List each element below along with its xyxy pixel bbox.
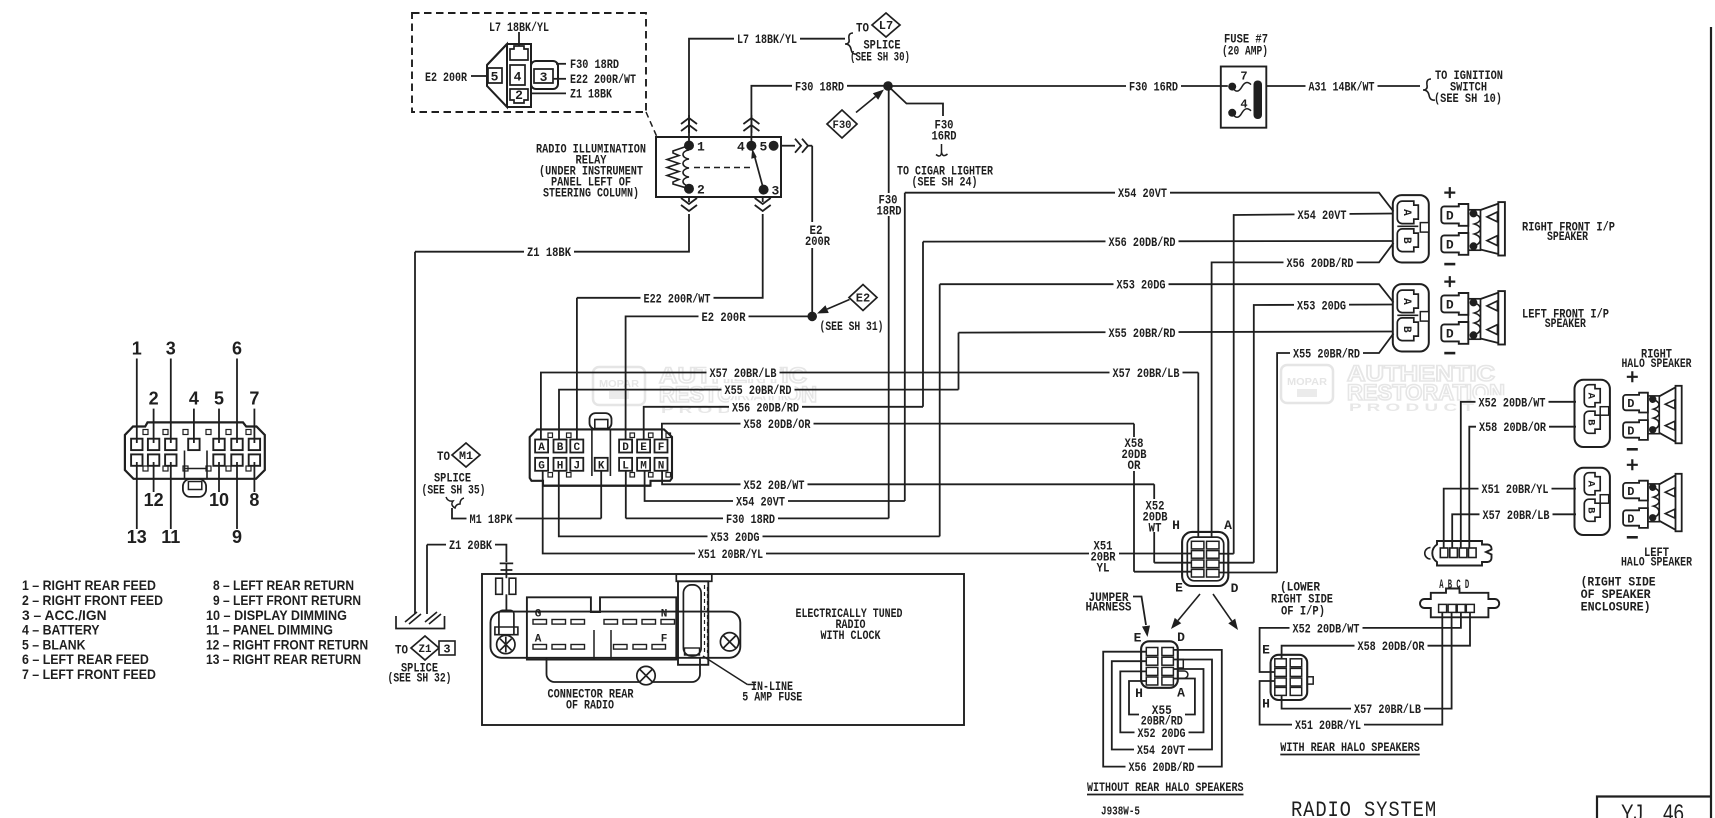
svg-text:A: A (1585, 393, 1597, 400)
wire X53 20DG bus to left-front speaker A (940, 284, 1394, 302)
svg-text:10: 10 (209, 490, 229, 510)
svg-text:X57 20BR/LB: X57 20BR/LB (1113, 366, 1180, 381)
label M1 18PK (467, 512, 516, 525)
svg-text:X56 20DB/RD: X56 20DB/RD (1287, 256, 1354, 271)
svg-text:TO: TO (395, 643, 408, 658)
C1 pin E (637, 440, 650, 453)
svg-text:SPEAKER: SPEAKER (1547, 229, 1588, 244)
svg-text:Z1 18BK: Z1 18BK (527, 245, 571, 260)
svg-text:G: G (538, 460, 545, 472)
wire X52 20DB/WT (C5 to C6 pin C) (1260, 613, 1461, 672)
svg-text:B: B (557, 442, 564, 454)
fuse F7 20A (1221, 67, 1267, 128)
svg-text:E: E (1134, 631, 1142, 646)
svg-text:A31 14BK/WT: A31 14BK/WT (1309, 80, 1375, 95)
label X51 20BR/YL (lower) (695, 547, 766, 560)
connector C9 pin legend (22, 577, 368, 682)
callout 3 to pin (170, 359, 172, 444)
svg-text:Z1 20BK: Z1 20BK (449, 538, 492, 553)
svg-text:X54 20VT: X54 20VT (1118, 186, 1167, 201)
svg-text:(SEE SH 24): (SEE SH 24) (912, 175, 978, 190)
wire F30 18RD (pin4 up to junction) (751, 86, 888, 133)
svg-text:K: K (598, 460, 605, 472)
C1 pin B (554, 440, 567, 453)
svg-text:WITH REAR HALO SPEAKERS: WITH REAR HALO SPEAKERS (1280, 740, 1420, 755)
label X57 20BR/LB (right) (1110, 366, 1183, 379)
svg-text:X57 20BR/LB: X57 20BR/LB (710, 366, 777, 381)
brace to cigar lighter (936, 144, 948, 156)
radio pin field (527, 597, 676, 659)
label X52 20DB/WT (halo) (1476, 395, 1549, 408)
svg-text:3: 3 (772, 184, 780, 199)
svg-text:YJ: YJ (1621, 800, 1643, 818)
wire X51 20BR/YL (C7 to left halo A) (1444, 489, 1576, 548)
callout 10 to pin (218, 462, 220, 492)
svg-text:TO: TO (856, 21, 869, 36)
svg-text:12 – RIGHT FRONT RETURN: 12 – RIGHT FRONT RETURN (206, 636, 368, 652)
svg-text:12: 12 (144, 490, 164, 510)
svg-text:YL: YL (1097, 560, 1110, 575)
wire X58 20DB/OR (C5 to C6 pin D) (1282, 613, 1470, 658)
screw bottom (637, 666, 655, 684)
relay pin 1 terminal (684, 141, 694, 151)
radio connector housing (491, 612, 741, 658)
svg-text:(SEE SH 35): (SEE SH 35) (422, 483, 486, 498)
svg-text:L7 18BK/YL: L7 18BK/YL (737, 32, 797, 47)
svg-text:5: 5 (491, 70, 499, 85)
svg-text:A B C D: A B C D (1439, 577, 1469, 592)
label X58 20DB/OR (left) (741, 417, 814, 430)
wire X58 20DB/OR (pin F right and down to C2) (662, 424, 1134, 441)
wire jumper X56 20DB/RD loop (1103, 650, 1222, 767)
wire X57 20BR/LB (C5 to C6 pin B) (1282, 613, 1452, 709)
svg-text:X52 20DB/WT: X52 20DB/WT (1293, 621, 1360, 636)
brace to L7 splice (845, 33, 857, 54)
label X51 20BR YL (stacked) (1089, 539, 1119, 571)
svg-text:X56 20DB/RD: X56 20DB/RD (1129, 760, 1195, 775)
C1 pin N (655, 458, 668, 471)
svg-text:X54 20VT: X54 20VT (1137, 743, 1185, 758)
label X54 20VT (lower) (733, 495, 788, 508)
callout 4 to pin (193, 409, 195, 443)
svg-text:D: D (1446, 209, 1454, 224)
svg-text:7: 7 (1240, 70, 1247, 84)
svg-text:H: H (1262, 696, 1270, 711)
connector C7 speaker enclosure 4-way (1432, 541, 1491, 566)
svg-text:E: E (1262, 643, 1270, 658)
wire X52 20DB/WT (C7 to right halo A) (1461, 402, 1576, 548)
svg-text:4: 4 (189, 389, 199, 409)
wire X58 20DB/OR (C7 to right halo B) (1469, 427, 1576, 548)
svg-text:X51 20BR/YL: X51 20BR/YL (1482, 482, 1549, 497)
label IN-LINE 5 AMP FUSE with leader (703, 656, 748, 685)
svg-text:4: 4 (737, 140, 745, 155)
break chevron below pin2 (681, 205, 697, 211)
label E22 200R/WT (641, 291, 714, 304)
svg-text:E22 200R/WT: E22 200R/WT (644, 291, 711, 306)
svg-text:20BR/RD: 20BR/RD (1141, 714, 1183, 729)
svg-text:C: C (573, 442, 580, 454)
label X53 20DG (bus) (1114, 278, 1169, 291)
svg-text:L7: L7 (879, 19, 893, 33)
svg-text:X55 20BR/RD: X55 20BR/RD (1109, 326, 1176, 341)
wire X55 20BR/RD bus to left-front speaker B (959, 332, 1394, 333)
splice symbol F30 with leader arrow (827, 110, 857, 138)
svg-text:E: E (1175, 581, 1183, 596)
label X58 20DB OR (stacked) (1120, 437, 1148, 471)
svg-text:H: H (557, 460, 564, 472)
svg-text:F30 18RD: F30 18RD (726, 512, 775, 527)
wire X54 20VT bus to right-front speaker A (905, 193, 1394, 212)
sheet right border line (1710, 27, 1712, 818)
C1 pin F (655, 440, 668, 453)
wire M1 18PK (to pin K) (452, 508, 601, 519)
svg-text:18RD: 18RD (877, 204, 902, 219)
C1 pin D (619, 440, 632, 453)
label Z1 18BK (524, 245, 574, 258)
svg-text:7 – LEFT FRONT FEED: 7 – LEFT FRONT FEED (22, 666, 156, 682)
svg-text:X51 20BR/YL: X51 20BR/YL (1295, 718, 1361, 733)
svg-text:D: D (1627, 397, 1634, 411)
C3 wire stub to L7 label (518, 32, 520, 46)
label X54 20VT (jumper) (1134, 743, 1188, 756)
svg-text:D: D (1177, 630, 1185, 645)
svg-text:X58 20DB/OR: X58 20DB/OR (1358, 639, 1425, 654)
svg-text:F: F (661, 634, 668, 646)
svg-text:A: A (1400, 298, 1412, 305)
svg-text:L: L (622, 460, 629, 472)
label L7 18BK/YL (734, 32, 800, 45)
svg-text:E22 200R/WT: E22 200R/WT (570, 72, 636, 87)
break chevron on L7 wire (681, 118, 697, 124)
svg-text:X55 20BR/RD: X55 20BR/RD (725, 383, 792, 398)
C1 pin M (637, 458, 650, 471)
svg-text:HALO SPEAKER: HALO SPEAKER (1622, 356, 1692, 371)
svg-text:E2 200R: E2 200R (702, 310, 746, 325)
svg-text:X55 20BR/RD: X55 20BR/RD (1293, 347, 1360, 362)
svg-text:X56 20DB/RD: X56 20DB/RD (732, 400, 799, 415)
brace below M1 splice (446, 497, 464, 508)
relay pin 5 terminal (769, 141, 779, 151)
grommet into Z1 splice (396, 616, 445, 629)
speaker LS3 right halo (1575, 371, 1682, 449)
svg-text:HARNESS: HARNESS (1086, 600, 1132, 615)
screw right (720, 633, 738, 651)
radio pin rows (533, 620, 547, 625)
svg-text:2: 2 (515, 88, 523, 103)
relay pin 3 terminal (759, 185, 769, 195)
wire L7 18BK/YL (pin1 up and right) (689, 39, 845, 133)
connector C3 relay-socket face view (487, 44, 558, 107)
connector C2 8-way (lower right side of I/P) (1182, 532, 1228, 586)
svg-text:OR: OR (1128, 458, 1141, 473)
svg-text:RADIO SYSTEM: RADIO SYSTEM (1291, 798, 1437, 818)
callout 8 to pin (253, 462, 255, 492)
break chevron on pin5 wire (795, 139, 801, 153)
wire X56 20DB/RD (pin E up to bus) (644, 407, 923, 441)
svg-text:X57 20BR/LB: X57 20BR/LB (1483, 508, 1550, 523)
callout 6 to pin (236, 359, 238, 444)
break chevron below pin3 (755, 205, 771, 211)
label X51 20BR/YL (halo harness) (1292, 718, 1364, 731)
illumination bulb socket (499, 610, 514, 634)
label X58 20DB/OR (halo) (1476, 420, 1549, 433)
wire A31 14BK/WT (fuse to ignition) (1266, 85, 1420, 87)
connector C9 radio harness 13-way face view (125, 422, 265, 478)
wire jumper X52 20DG loop (1120, 669, 1203, 732)
svg-text:A: A (1400, 209, 1412, 216)
wire X56 20DB/RD inner (C2 to speaker B) (1212, 243, 1394, 538)
svg-text:(SEE SH 31): (SEE SH 31) (820, 319, 884, 334)
svg-text:D: D (1627, 485, 1634, 499)
wire X55 20BR/RD (pin B up to bus) (559, 390, 959, 441)
svg-text:4: 4 (514, 70, 522, 85)
label X57 20BR/LB (halo harness) (1351, 702, 1424, 715)
wire jumper X54 20VT loop (1112, 660, 1212, 750)
wire X55 20BR/RD inner (C2 to speaker B) (1220, 572, 1278, 574)
svg-text:G: G (535, 609, 542, 621)
svg-text:A: A (535, 634, 542, 646)
relay K1 RADIO ILLUMINATION RELAY box (656, 137, 781, 197)
wire X53 20DG (pin H to bus riser) (559, 471, 940, 536)
label X52 20DB/WT (halo harness) (1290, 621, 1363, 634)
svg-text:ENCLOSURE): ENCLOSURE) (1581, 600, 1651, 615)
svg-text:3: 3 (166, 339, 176, 359)
svg-text:E: E (640, 442, 647, 454)
svg-text:2: 2 (697, 183, 705, 198)
svg-text:D: D (1446, 298, 1454, 313)
svg-text:4 – BATTERY: 4 – BATTERY (22, 622, 100, 638)
in-line fuse on Z1 20BK lead (500, 563, 514, 570)
label X57 20BR/LB (left) (707, 366, 780, 379)
node F30 junction (883, 81, 893, 91)
wire X56 20DB/RD bus to right-front speaker B (923, 240, 1394, 243)
svg-text:(SEE SH 10): (SEE SH 10) (1434, 91, 1502, 106)
svg-text:P R O D U C T: P R O D U C T (1349, 402, 1474, 414)
svg-text:J: J (573, 460, 580, 472)
svg-text:OF RADIO: OF RADIO (566, 698, 614, 713)
svg-text:X54 20VT: X54 20VT (1298, 208, 1347, 223)
svg-text:6 – LEFT REAR FEED: 6 – LEFT REAR FEED (22, 651, 149, 667)
connector C1 radio 14-way body (530, 429, 672, 485)
relay pin 2 terminal (684, 184, 694, 194)
label F30 18RD (top) (792, 79, 847, 92)
splice symbol E2 with leader arrow (849, 285, 877, 311)
svg-text:2: 2 (149, 389, 159, 409)
label X56 20DB/RD (left) (729, 400, 802, 413)
svg-text:WITHOUT REAR HALO SPEAKERS: WITHOUT REAR HALO SPEAKERS (1087, 780, 1244, 795)
C1 pin G (535, 458, 548, 471)
svg-text:Z1: Z1 (419, 644, 432, 656)
svg-text:X52 20DB/WT: X52 20DB/WT (1479, 395, 1546, 410)
svg-text:200R: 200R (805, 234, 830, 249)
svg-text:10 – DISPLAY DIMMING: 10 – DISPLAY DIMMING (206, 607, 347, 623)
label X52 20DG (jumper) (1135, 726, 1189, 739)
wire X54 20VT inner (C2 to speaker A) (1220, 553, 1234, 555)
svg-text:H: H (1135, 686, 1143, 701)
speaker LS1 right front I/P (1393, 187, 1505, 264)
svg-text:M: M (640, 460, 647, 472)
label Z1 20BK (446, 538, 495, 551)
svg-text:13 – RIGHT REAR RETURN: 13 – RIGHT REAR RETURN (206, 651, 361, 667)
svg-text:L7 18BK/YL: L7 18BK/YL (489, 20, 549, 35)
svg-text:WT: WT (1149, 520, 1162, 535)
label X56 20DB/RD (bus) (1106, 235, 1179, 248)
label X52 20DB WT (stacked) (1141, 499, 1169, 532)
svg-text:1: 1 (697, 140, 705, 155)
svg-text:M1: M1 (459, 451, 473, 463)
connector C5 8-way rear halo harness (1271, 655, 1308, 700)
label X54 20VT (bus) (1115, 186, 1170, 199)
svg-text:OF I/P): OF I/P) (1281, 604, 1325, 619)
C1 pin J (570, 458, 583, 471)
callout 2 to pin (153, 409, 155, 443)
label A31 14BK/WT (1306, 80, 1378, 93)
svg-text:16RD: 16RD (932, 129, 957, 144)
arrow C2 to rear-halo connector (1213, 594, 1232, 621)
svg-text:A: A (1224, 518, 1232, 533)
callout 13 to pin (136, 462, 138, 529)
svg-text:X58 20DB/OR: X58 20DB/OR (1479, 420, 1546, 435)
svg-text:3 – ACC./IGN: 3 – ACC./IGN (22, 607, 107, 623)
svg-text:1 – RIGHT REAR FEED: 1 – RIGHT REAR FEED (22, 577, 156, 593)
wire X51 20BR/YL (pin G to C2) (543, 471, 1192, 554)
relay switch arm (pin4 to pin3) (755, 156, 764, 190)
svg-text:9: 9 (232, 527, 242, 547)
wire Z1 18BK (pin2 down, left, down to grommet) (688, 197, 690, 202)
svg-text:D: D (1627, 424, 1634, 438)
svg-text:9 – LEFT FRONT RETURN: 9 – LEFT FRONT RETURN (213, 592, 361, 608)
relay resistor (667, 146, 689, 189)
svg-text:8: 8 (249, 490, 259, 510)
svg-text:J938W-5: J938W-5 (1101, 806, 1140, 818)
svg-text:M1 18PK: M1 18PK (470, 512, 513, 527)
radio outline box (482, 574, 964, 725)
svg-text:HALO SPEAKER: HALO SPEAKER (1621, 555, 1692, 570)
svg-text:N: N (658, 460, 665, 472)
svg-text:Z1 18BK: Z1 18BK (570, 87, 612, 102)
label X55 20BR/RD (inner) (1290, 347, 1363, 360)
wire X52 20B/WT (pin N to C2) (662, 471, 1154, 484)
decorative watermark left (593, 363, 817, 416)
label E2 200R (699, 310, 749, 323)
svg-text:5 – BLANK: 5 – BLANK (22, 636, 85, 652)
svg-text:13: 13 (127, 527, 147, 547)
label F30 18RD (stacked) (874, 193, 903, 216)
svg-text:TO: TO (437, 449, 450, 464)
svg-text:D: D (1446, 327, 1454, 342)
svg-text:STEERING COLUMN): STEERING COLUMN) (543, 186, 639, 201)
callout 12 to pin (153, 462, 155, 492)
connector C4 8-way jumper harness (1141, 641, 1178, 688)
svg-text:3: 3 (443, 643, 450, 657)
svg-text:X52 20B/WT: X52 20B/WT (744, 478, 805, 493)
label X54 20VT (inner) (1295, 208, 1350, 221)
svg-text:D: D (622, 442, 629, 454)
svg-text:B: B (1400, 326, 1412, 333)
svg-text:7: 7 (249, 389, 259, 409)
svg-text:X53 20DG: X53 20DG (711, 530, 760, 545)
label X55 20BR/RD (left) (722, 383, 795, 396)
label X56 20DB/RD (jumper) (1126, 760, 1198, 773)
label X58 20DB/OR (halo harness) (1355, 639, 1428, 652)
title block box (1597, 797, 1711, 818)
relay coil (683, 150, 689, 186)
svg-text:B: B (1585, 507, 1597, 514)
svg-text:2 – RIGHT FRONT FEED: 2 – RIGHT FRONT FEED (22, 592, 163, 608)
label X57 20BR/LB (halo) (1480, 508, 1553, 521)
svg-text:F30 16RD: F30 16RD (1129, 80, 1178, 95)
wire E2 200R (pin5 through break, down) (781, 145, 795, 147)
svg-text:MOPAR: MOPAR (599, 379, 640, 390)
callout 7 to pin (253, 409, 255, 443)
svg-text:1: 1 (132, 339, 142, 359)
svg-text:8 – LEFT REAR RETURN: 8 – LEFT REAR RETURN (213, 577, 354, 593)
wire X57 20BR/LB (pin A to C2) (541, 373, 1198, 442)
label X53 20DG (lower) (708, 530, 763, 543)
svg-text:A: A (1585, 481, 1597, 488)
label X56 20DB/RD (inner) (1284, 256, 1357, 269)
svg-text:MOPAR: MOPAR (1287, 377, 1328, 388)
speaker LS2 left front I/P (1393, 276, 1505, 353)
callout 9 to pin (236, 462, 238, 529)
svg-text:E2 200R: E2 200R (425, 70, 467, 85)
in-line 5 amp fuse holder (676, 574, 712, 581)
dashed detail box (relay connector face view) (412, 13, 646, 112)
svg-text:A: A (538, 442, 545, 454)
C1 pin A (535, 440, 548, 453)
label X55 20BR/RD (jumper, stacked) (1139, 703, 1185, 725)
svg-text:5: 5 (760, 140, 768, 155)
svg-text:X56 20DB/RD: X56 20DB/RD (1109, 235, 1176, 250)
svg-text:N: N (661, 609, 668, 621)
label X53 20DG (inner) (1294, 299, 1349, 312)
decorative watermark right (1281, 361, 1505, 414)
svg-text:3: 3 (540, 70, 548, 85)
wire F30 18RD (junction down to pin L) (888, 86, 890, 193)
wire E22 200R/WT (pin3 down, left, to pin C) (762, 197, 764, 202)
svg-text:B: B (1400, 237, 1412, 244)
label E2 200R (stacked) (800, 222, 832, 248)
arrow C2 to jumper-harness connector (1178, 594, 1200, 621)
svg-text:E2: E2 (856, 292, 870, 306)
C1 pin C (570, 440, 583, 453)
svg-text:X57 20BR/LB: X57 20BR/LB (1354, 702, 1421, 717)
svg-text:X51 20BR/YL: X51 20BR/YL (698, 547, 763, 562)
C1 pin K (595, 458, 608, 471)
svg-text:A: A (1177, 686, 1185, 701)
relay coil-to-switch dashed link (694, 167, 752, 169)
speaker LS4 left halo (1575, 459, 1682, 537)
svg-text:11 – PANEL DIMMING: 11 – PANEL DIMMING (206, 622, 333, 638)
svg-text:X58 20DB/OR: X58 20DB/OR (744, 417, 811, 432)
svg-text:D: D (1627, 512, 1634, 526)
svg-text:6: 6 (232, 339, 242, 359)
node E2 junction (807, 312, 817, 322)
relay pin 4 terminal (746, 141, 756, 151)
wire X53 20DG inner (C2 to speaker A) (1220, 562, 1254, 564)
svg-text:(SEE SH 30): (SEE SH 30) (850, 50, 910, 65)
svg-text:5: 5 (214, 389, 224, 409)
svg-text:46: 46 (1663, 800, 1684, 818)
C1 pin H (554, 458, 567, 471)
svg-text:F: F (658, 442, 665, 454)
svg-text:F30 18RD: F30 18RD (795, 79, 844, 94)
callout 1 to pin (136, 359, 138, 444)
svg-text:SPEAKER: SPEAKER (1545, 316, 1586, 331)
svg-text:(SEE SH 32): (SEE SH 32) (388, 671, 452, 686)
wire Z1 20BK (in-line fuse up and left to grommet) (427, 545, 506, 562)
